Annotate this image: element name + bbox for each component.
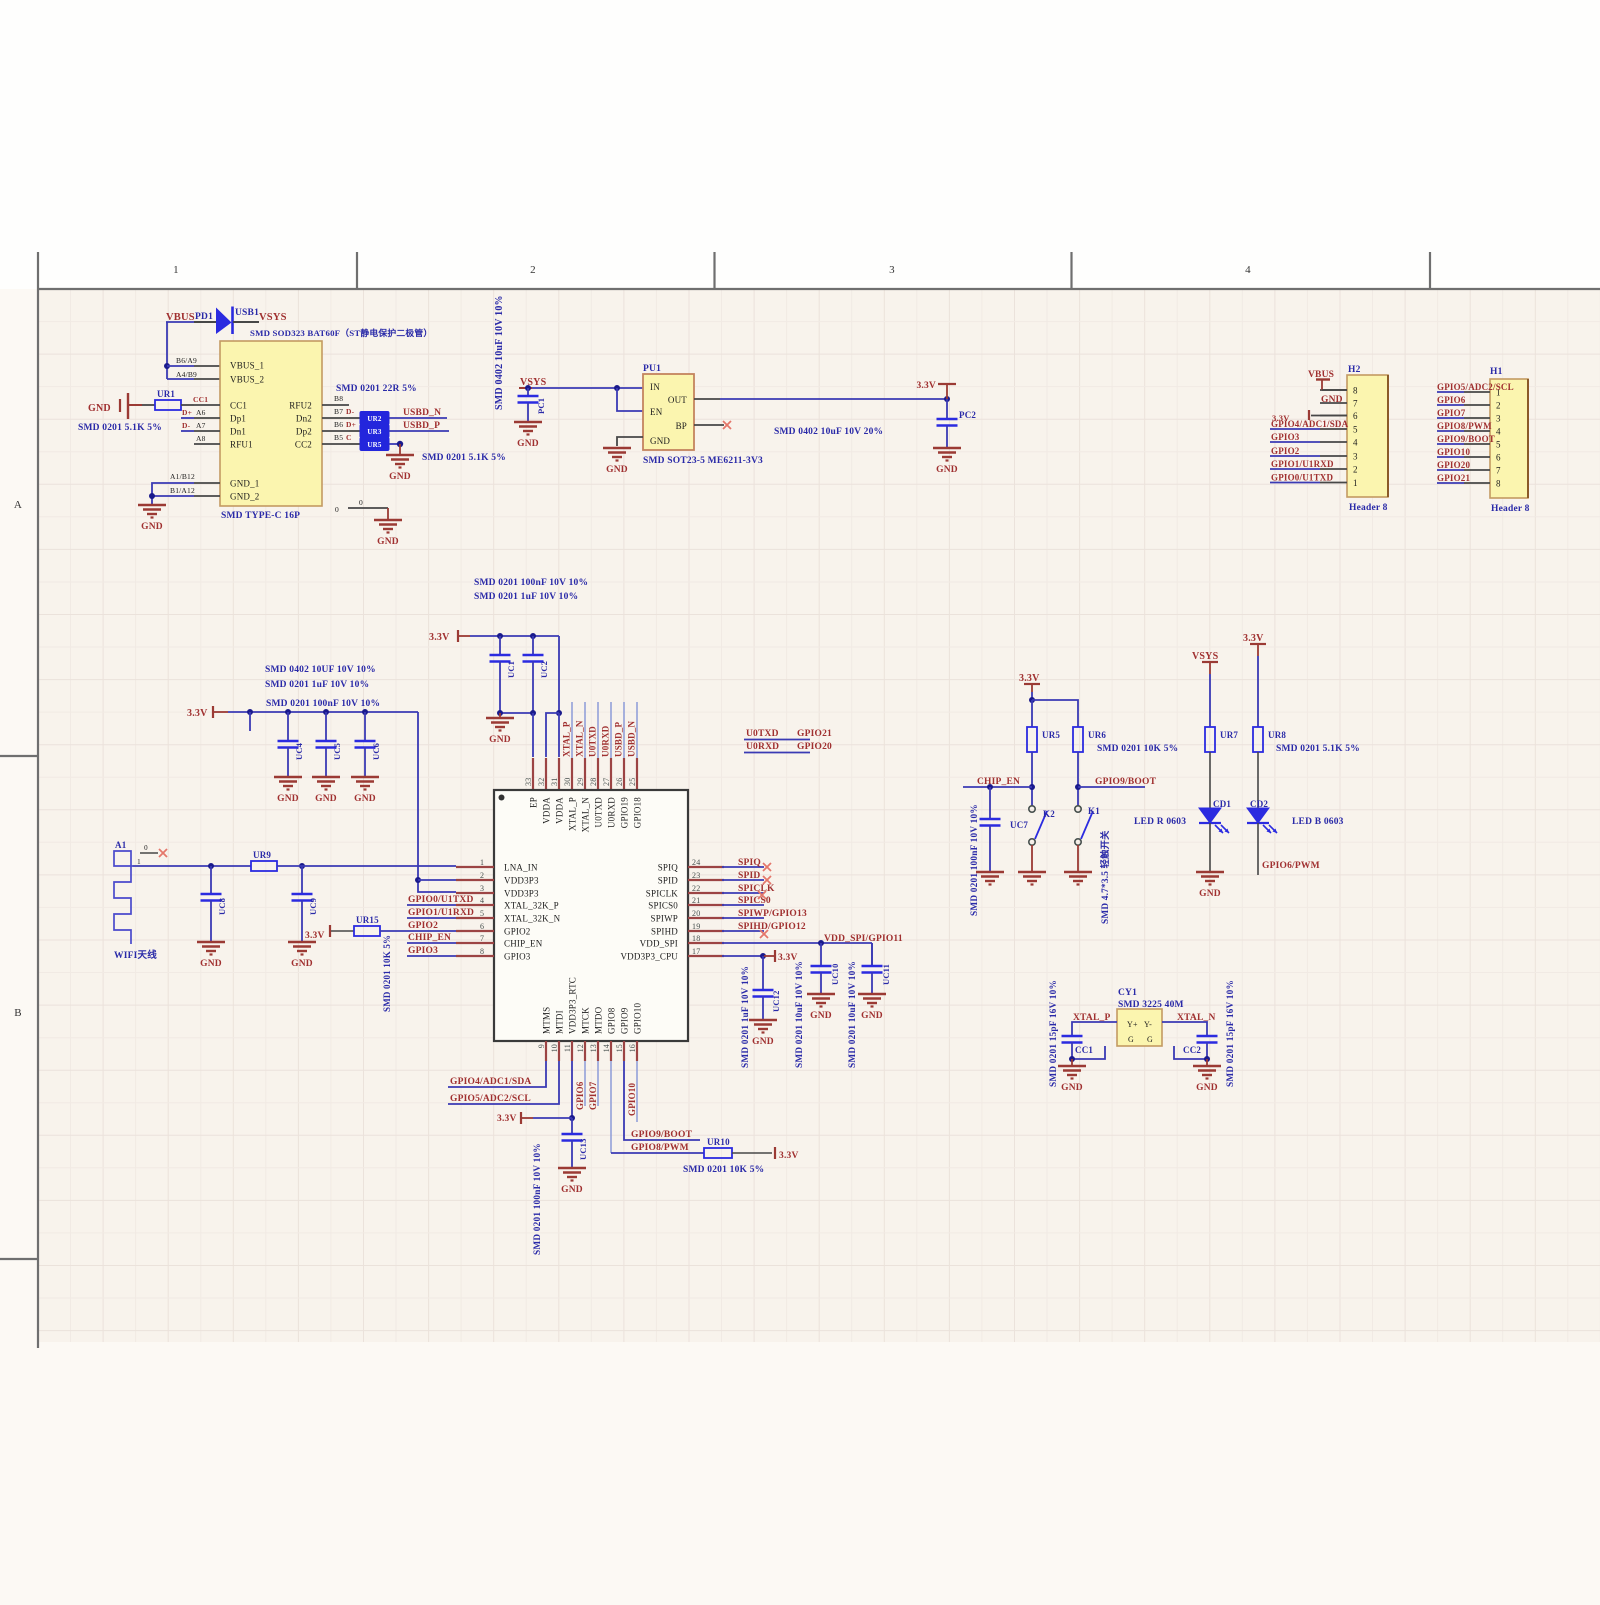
svg-text:C: C [346, 433, 352, 442]
svg-text:A4/B9: A4/B9 [176, 370, 197, 379]
svg-text:10: 10 [550, 1044, 559, 1052]
svg-text:CHIP_EN: CHIP_EN [504, 939, 543, 949]
svg-text:GPIO0/U1TXD: GPIO0/U1TXD [1271, 473, 1334, 483]
svg-text:17: 17 [692, 947, 700, 956]
svg-text:8: 8 [1496, 479, 1501, 489]
svg-text:8: 8 [480, 947, 484, 956]
svg-text:GPIO3: GPIO3 [408, 946, 438, 956]
svg-text:GND: GND [517, 439, 539, 449]
svg-text:GPIO6: GPIO6 [575, 1081, 585, 1110]
svg-text:GPIO21: GPIO21 [1437, 473, 1471, 483]
svg-text:SMD 0402 10UF 10V 10%: SMD 0402 10UF 10V 10% [265, 665, 376, 675]
svg-text:MTDO: MTDO [594, 1006, 604, 1034]
svg-text:UC12: UC12 [771, 990, 781, 1012]
svg-text:SMD 0201 22R 5%: SMD 0201 22R 5% [336, 384, 417, 394]
svg-text:GPIO2: GPIO2 [408, 921, 438, 931]
svg-text:33: 33 [524, 778, 533, 786]
svg-text:GND: GND [277, 794, 299, 804]
svg-text:GPIO8/PWM: GPIO8/PWM [1437, 421, 1492, 431]
svg-text:30: 30 [563, 778, 572, 786]
svg-text:MTCK: MTCK [581, 1007, 591, 1034]
svg-text:GPIO1/U1RXD: GPIO1/U1RXD [408, 908, 474, 918]
svg-text:D-: D- [346, 407, 355, 416]
svg-text:SMD 0201 10K 5%: SMD 0201 10K 5% [683, 1165, 764, 1175]
svg-text:1: 1 [1353, 478, 1358, 488]
svg-text:GND: GND [606, 465, 628, 475]
svg-text:SMD 0201 1uF 10V 10%: SMD 0201 1uF 10V 10% [741, 966, 751, 1068]
svg-text:3: 3 [480, 884, 484, 893]
svg-text:28: 28 [589, 778, 598, 786]
svg-text:4: 4 [1245, 264, 1251, 276]
svg-text:GPIO18: GPIO18 [633, 797, 643, 829]
svg-text:3: 3 [889, 264, 895, 276]
svg-text:3.3V: 3.3V [305, 931, 325, 941]
svg-text:GPIO7: GPIO7 [588, 1081, 598, 1110]
svg-text:UR6: UR6 [1088, 730, 1106, 740]
svg-text:GND: GND [650, 436, 670, 446]
svg-text:UC6: UC6 [371, 743, 381, 760]
svg-text:1: 1 [480, 858, 484, 867]
svg-text:19: 19 [692, 922, 700, 931]
svg-text:3: 3 [1353, 452, 1358, 462]
svg-text:SMD 0201 1uF 10V 10%: SMD 0201 1uF 10V 10% [474, 592, 578, 602]
svg-text:14: 14 [602, 1044, 611, 1052]
svg-text:RFU2: RFU2 [289, 401, 312, 411]
svg-text:GND: GND [315, 794, 337, 804]
svg-text:MTDI: MTDI [555, 1010, 565, 1034]
svg-text:UR2: UR2 [367, 415, 382, 423]
svg-text:GPIO10: GPIO10 [1437, 447, 1471, 457]
svg-text:Header 8: Header 8 [1491, 504, 1530, 514]
svg-text:SMD 0201 5.1K 5%: SMD 0201 5.1K 5% [422, 453, 506, 463]
svg-text:A: A [14, 499, 22, 511]
svg-text:SPIWP: SPIWP [650, 914, 678, 924]
svg-text:3.3V: 3.3V [187, 708, 208, 719]
svg-text:GPIO9/BOOT: GPIO9/BOOT [1437, 434, 1495, 444]
svg-text:EP: EP [529, 797, 539, 808]
svg-text:2: 2 [1496, 401, 1501, 411]
svg-text:3.3V: 3.3V [778, 953, 798, 963]
svg-text:GPIO3: GPIO3 [1271, 432, 1300, 442]
svg-text:6: 6 [1496, 453, 1501, 463]
svg-text:GPIO9/BOOT: GPIO9/BOOT [1095, 777, 1157, 787]
svg-text:32: 32 [537, 778, 546, 786]
svg-text:SPIQ: SPIQ [658, 863, 679, 873]
svg-text:SPICLK: SPICLK [646, 889, 679, 899]
svg-text:GND: GND [291, 959, 313, 969]
svg-text:G: G [1128, 1035, 1134, 1044]
svg-text:GND: GND [354, 794, 376, 804]
svg-text:B8: B8 [334, 394, 343, 403]
svg-text:G: G [1147, 1035, 1153, 1044]
svg-text:2: 2 [1353, 465, 1358, 475]
svg-text:18: 18 [692, 934, 700, 943]
svg-text:Y+: Y+ [1127, 1020, 1138, 1029]
svg-text:5: 5 [480, 909, 484, 918]
svg-text:13: 13 [589, 1044, 598, 1052]
svg-text:UC8: UC8 [217, 898, 227, 915]
svg-text:U0TXD: U0TXD [594, 797, 604, 828]
svg-text:Dp1: Dp1 [230, 414, 246, 424]
svg-text:VBUS_1: VBUS_1 [230, 361, 264, 371]
svg-text:GND: GND [389, 472, 411, 482]
svg-text:XTAL_P: XTAL_P [568, 797, 578, 831]
svg-text:SMD 0201 5.1K 5%: SMD 0201 5.1K 5% [1276, 744, 1360, 754]
svg-text:GND: GND [936, 465, 958, 475]
svg-text:RFU1: RFU1 [230, 440, 253, 450]
svg-text:VSYS: VSYS [520, 377, 547, 388]
svg-text:UC13: UC13 [578, 1138, 588, 1160]
svg-text:SMD TYPE-C 16P: SMD TYPE-C 16P [221, 511, 300, 521]
svg-text:CHIP_EN: CHIP_EN [977, 777, 1020, 787]
svg-text:GPIO8/PWM: GPIO8/PWM [631, 1143, 689, 1153]
svg-text:UR7: UR7 [1220, 730, 1238, 740]
svg-text:H2: H2 [1348, 365, 1361, 375]
svg-text:GND: GND [1321, 395, 1343, 405]
svg-text:CHIP_EN: CHIP_EN [408, 933, 451, 943]
svg-text:16: 16 [628, 1044, 637, 1052]
svg-text:GPIO6: GPIO6 [1437, 395, 1466, 405]
svg-text:EN: EN [650, 407, 663, 417]
svg-text:GPIO3: GPIO3 [504, 952, 531, 962]
svg-text:GPIO10: GPIO10 [633, 1002, 643, 1034]
svg-text:4: 4 [480, 896, 484, 905]
svg-text:VBUS_2: VBUS_2 [230, 375, 264, 385]
svg-text:OUT: OUT [668, 395, 687, 405]
svg-text:B6/A9: B6/A9 [176, 356, 197, 365]
svg-text:UR10: UR10 [707, 1137, 730, 1147]
svg-text:SPICLK: SPICLK [738, 884, 775, 894]
svg-text:SMD SOT23-5 ME6211-3V3: SMD SOT23-5 ME6211-3V3 [643, 456, 763, 466]
svg-text:D-: D- [182, 421, 191, 430]
svg-text:2: 2 [480, 871, 484, 880]
svg-text:SMD 0201 100nF 10V 10%: SMD 0201 100nF 10V 10% [266, 699, 380, 709]
svg-text:B6: B6 [334, 420, 343, 429]
svg-text:GPIO20: GPIO20 [1437, 460, 1471, 470]
svg-text:GND: GND [1061, 1083, 1083, 1093]
svg-text:3.3V: 3.3V [916, 381, 936, 391]
svg-text:21: 21 [692, 896, 700, 905]
svg-text:UC2: UC2 [539, 661, 549, 678]
svg-text:GPIO21: GPIO21 [797, 729, 832, 739]
svg-text:3.3V: 3.3V [497, 1114, 517, 1124]
svg-text:GND: GND [141, 522, 163, 532]
svg-text:SPIWP/GPIO13: SPIWP/GPIO13 [738, 909, 807, 919]
svg-text:UR5: UR5 [367, 441, 382, 449]
svg-text:VDDA: VDDA [555, 797, 565, 824]
svg-text:SPICS0: SPICS0 [648, 901, 678, 911]
svg-text:U0RXD: U0RXD [601, 725, 611, 757]
svg-text:20: 20 [692, 909, 700, 918]
svg-text:USBD_P: USBD_P [403, 421, 440, 431]
svg-text:A1: A1 [115, 840, 127, 850]
svg-text:GPIO9: GPIO9 [620, 1007, 630, 1034]
svg-text:SPID: SPID [738, 871, 760, 881]
svg-text:UC9: UC9 [308, 898, 318, 915]
svg-text:K2: K2 [1043, 809, 1055, 819]
svg-text:VDD3P3_RTC: VDD3P3_RTC [568, 977, 578, 1034]
svg-text:SMD 0201 15pF 16V 10%: SMD 0201 15pF 16V 10% [1226, 980, 1236, 1087]
svg-text:VSYS: VSYS [1192, 651, 1219, 662]
svg-text:D+: D+ [182, 408, 192, 417]
svg-text:9: 9 [537, 1044, 546, 1048]
svg-text:12: 12 [576, 1044, 585, 1052]
svg-text:GPIO8: GPIO8 [607, 1007, 617, 1034]
svg-text:11: 11 [563, 1044, 572, 1052]
svg-text:GPIO5/ADC2/SCL: GPIO5/ADC2/SCL [450, 1094, 531, 1104]
svg-text:4: 4 [1353, 438, 1358, 448]
svg-text:GPIO4/ADC1/SDA: GPIO4/ADC1/SDA [1271, 419, 1349, 429]
svg-text:CC2: CC2 [295, 440, 312, 450]
svg-text:USBD_P: USBD_P [614, 721, 624, 757]
svg-text:GPIO1/U1RXD: GPIO1/U1RXD [1271, 459, 1334, 469]
svg-text:UC7: UC7 [1010, 820, 1028, 830]
svg-text:3.3V: 3.3V [1019, 673, 1040, 684]
svg-text:24: 24 [692, 858, 700, 867]
svg-text:BP: BP [676, 421, 687, 431]
svg-text:PC2: PC2 [959, 410, 976, 420]
svg-text:CC1: CC1 [193, 395, 208, 404]
svg-text:MTMS: MTMS [542, 1007, 552, 1034]
svg-text:7: 7 [1496, 466, 1501, 476]
svg-text:SPIQ: SPIQ [738, 858, 761, 868]
svg-text:D+: D+ [346, 420, 356, 429]
svg-text:GPIO6/PWM: GPIO6/PWM [1262, 861, 1320, 871]
svg-text:UR3: UR3 [367, 428, 382, 436]
svg-text:UR15: UR15 [356, 915, 379, 925]
svg-text:SMD 0402 10uF 10V 10%: SMD 0402 10uF 10V 10% [494, 295, 505, 410]
svg-text:SMD 0201 100nF 10V 10%: SMD 0201 100nF 10V 10% [474, 578, 588, 588]
svg-text:U0TXD: U0TXD [746, 729, 779, 739]
svg-text:VDD_SPI: VDD_SPI [640, 939, 678, 949]
svg-text:USBD_N: USBD_N [403, 408, 441, 418]
svg-text:XTAL_32K_P: XTAL_32K_P [504, 901, 559, 911]
svg-text:8: 8 [1353, 386, 1358, 396]
svg-text:GND: GND [377, 537, 399, 547]
svg-text:3.3V: 3.3V [429, 632, 450, 643]
svg-text:LED R 0603: LED R 0603 [1134, 817, 1186, 827]
svg-text:GPIO7: GPIO7 [1437, 408, 1466, 418]
svg-text:B7: B7 [334, 407, 343, 416]
svg-text:CY1: CY1 [1118, 988, 1137, 998]
svg-text:USB1: USB1 [235, 308, 259, 318]
svg-text:SMD 0402 10uF 10V 20%: SMD 0402 10uF 10V 20% [774, 427, 883, 437]
svg-text:GND_1: GND_1 [230, 479, 260, 489]
svg-text:GND: GND [88, 403, 111, 414]
svg-text:USBD_N: USBD_N [627, 720, 637, 757]
svg-text:SPICS0: SPICS0 [738, 896, 771, 906]
svg-text:UR8: UR8 [1268, 730, 1286, 740]
svg-text:SPID: SPID [658, 876, 679, 886]
svg-text:SMD 0201 10uF 10V 10%: SMD 0201 10uF 10V 10% [795, 961, 805, 1068]
svg-text:GND: GND [810, 1011, 832, 1021]
svg-text:SMD 0201 5.1K 5%: SMD 0201 5.1K 5% [78, 423, 162, 433]
svg-text:A6: A6 [196, 408, 206, 417]
svg-text:4: 4 [1496, 427, 1501, 437]
svg-text:GND: GND [1199, 889, 1221, 899]
svg-text:5: 5 [1353, 425, 1358, 435]
svg-text:VSYS: VSYS [259, 312, 287, 323]
svg-text:LED B 0603: LED B 0603 [1292, 817, 1344, 827]
svg-text:SMD 0201 10uF 10V 10%: SMD 0201 10uF 10V 10% [848, 961, 858, 1068]
svg-text:GND: GND [200, 959, 222, 969]
svg-text:27: 27 [602, 778, 611, 786]
svg-text:Dn1: Dn1 [230, 427, 246, 437]
svg-text:GPIO2: GPIO2 [504, 927, 531, 937]
svg-text:6: 6 [1353, 411, 1358, 421]
svg-text:SMD 0201 100nF 10V 10%: SMD 0201 100nF 10V 10% [970, 804, 980, 916]
svg-text:3.3V: 3.3V [1243, 633, 1264, 644]
svg-text:7: 7 [480, 934, 484, 943]
svg-text:GPIO20: GPIO20 [797, 742, 832, 752]
svg-text:15: 15 [615, 1044, 624, 1052]
svg-text:XTAL_P: XTAL_P [562, 721, 572, 757]
svg-text:GPIO0/U1TXD: GPIO0/U1TXD [408, 895, 474, 905]
svg-text:GND: GND [489, 735, 511, 745]
svg-text:0: 0 [335, 505, 339, 514]
svg-text:2: 2 [530, 264, 536, 276]
svg-text:GPIO19: GPIO19 [620, 797, 630, 829]
svg-text:GND: GND [861, 1011, 883, 1021]
svg-text:SPIHD: SPIHD [651, 927, 678, 937]
svg-text:SMD 4.7*3.5 轻触开关: SMD 4.7*3.5 轻触开关 [1099, 830, 1111, 924]
svg-text:CC1: CC1 [1075, 1045, 1093, 1055]
svg-text:23: 23 [692, 871, 700, 880]
svg-text:GND_2: GND_2 [230, 492, 260, 502]
svg-text:B: B [14, 1007, 22, 1019]
svg-text:VDD3P3: VDD3P3 [504, 876, 539, 886]
svg-text:CC1: CC1 [230, 401, 247, 411]
svg-text:LNA_IN: LNA_IN [504, 863, 538, 873]
svg-text:GND: GND [561, 1185, 583, 1195]
svg-text:K1: K1 [1088, 806, 1100, 816]
svg-text:26: 26 [615, 778, 624, 786]
svg-text:A8: A8 [196, 434, 206, 443]
svg-text:GPIO2: GPIO2 [1271, 446, 1300, 456]
svg-text:UR5: UR5 [1042, 730, 1060, 740]
svg-text:0: 0 [144, 844, 148, 852]
svg-text:25: 25 [628, 778, 637, 786]
svg-text:Dp2: Dp2 [296, 427, 312, 437]
svg-text:1: 1 [137, 858, 141, 866]
svg-text:UC4: UC4 [294, 742, 304, 760]
svg-text:U0RXD: U0RXD [746, 742, 779, 752]
svg-text:SMD 0201 1uF 10V 10%: SMD 0201 1uF 10V 10% [265, 680, 369, 690]
svg-text:GND: GND [752, 1037, 774, 1047]
svg-text:PD1: PD1 [195, 312, 213, 322]
svg-text:CC2: CC2 [1183, 1045, 1201, 1055]
svg-text:B1/A12: B1/A12 [170, 486, 195, 495]
svg-text:H1: H1 [1490, 367, 1503, 377]
svg-text:6: 6 [480, 922, 484, 931]
svg-text:B5: B5 [334, 433, 343, 442]
svg-text:SMD 0201 100nF 10V 10%: SMD 0201 100nF 10V 10% [533, 1143, 543, 1255]
svg-text:3.3V: 3.3V [779, 1151, 799, 1161]
svg-text:SMD 0201 15pF 16V 10%: SMD 0201 15pF 16V 10% [1049, 980, 1059, 1087]
svg-text:VDDA: VDDA [542, 797, 552, 824]
svg-text:UC10: UC10 [830, 963, 840, 985]
svg-text:Header 8: Header 8 [1349, 503, 1388, 513]
svg-text:UC1: UC1 [506, 661, 516, 678]
svg-text:IN: IN [650, 382, 660, 392]
svg-text:VDD3P3: VDD3P3 [504, 889, 539, 899]
svg-text:A1/B12: A1/B12 [170, 472, 195, 481]
svg-text:U0TXD: U0TXD [588, 726, 598, 757]
svg-text:29: 29 [576, 778, 585, 786]
svg-text:XTAL_32K_N: XTAL_32K_N [504, 914, 561, 924]
svg-text:31: 31 [550, 778, 559, 786]
svg-text:UC11: UC11 [881, 964, 891, 985]
svg-text:5: 5 [1496, 440, 1501, 450]
svg-text:UC5: UC5 [332, 743, 342, 760]
svg-text:VDD3P3_CPU: VDD3P3_CPU [620, 952, 678, 962]
svg-text:Dn2: Dn2 [296, 414, 312, 424]
svg-text:A7: A7 [196, 421, 206, 430]
svg-text:7: 7 [1353, 399, 1358, 409]
svg-text:UR9: UR9 [253, 850, 271, 860]
svg-text:22: 22 [692, 884, 700, 893]
svg-text:SMD 0201 10K 5%: SMD 0201 10K 5% [1097, 744, 1178, 754]
svg-text:GPIO5/ADC2/SCL: GPIO5/ADC2/SCL [1437, 382, 1514, 392]
svg-text:GPIO9/BOOT: GPIO9/BOOT [631, 1130, 693, 1140]
svg-text:SPIHD/GPIO12: SPIHD/GPIO12 [738, 922, 806, 932]
svg-text:PU1: PU1 [643, 364, 661, 374]
svg-text:1: 1 [173, 264, 179, 276]
svg-text:U0RXD: U0RXD [607, 797, 617, 828]
svg-text:0: 0 [359, 498, 363, 507]
svg-text:XTAL_N: XTAL_N [575, 720, 585, 757]
svg-text:SMD 0201 10K 5%: SMD 0201 10K 5% [382, 935, 392, 1012]
svg-text:GPIO4/ADC1/SDA: GPIO4/ADC1/SDA [450, 1077, 531, 1087]
svg-text:GPIO10: GPIO10 [627, 1082, 637, 1116]
svg-text:WIFI天线: WIFI天线 [114, 949, 157, 961]
svg-text:Y-: Y- [1144, 1020, 1152, 1029]
svg-text:XTAL_N: XTAL_N [581, 797, 591, 833]
svg-text:VDD_SPI/GPIO11: VDD_SPI/GPIO11 [824, 934, 903, 944]
svg-text:UR1: UR1 [157, 389, 175, 399]
svg-text:3: 3 [1496, 414, 1501, 424]
svg-text:SMD SOD323 BAT60F（ST静电保护二极管）: SMD SOD323 BAT60F（ST静电保护二极管） [250, 327, 432, 338]
svg-text:GND: GND [1196, 1083, 1218, 1093]
svg-text:PC1: PC1 [536, 398, 546, 414]
